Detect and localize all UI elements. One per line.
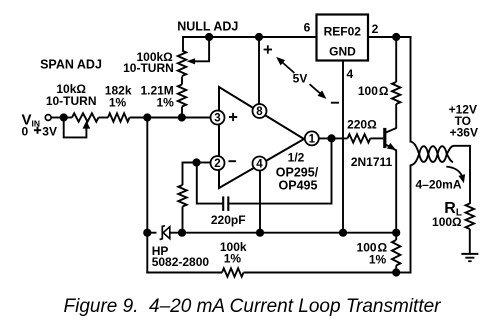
op-amp plus sign (pin3) [229, 116, 237, 118]
pin 4 circle [253, 157, 267, 171]
wire null pot wiper drop [208, 37, 210, 61]
arrowhead null pot wiper [187, 58, 196, 64]
annotation 5V reference arrows [267, 45, 269, 53]
junction null wiper [205, 33, 213, 41]
svg-text:REF02: REF02 [324, 25, 362, 39]
junction output node [327, 134, 335, 142]
annotation 4-20mA current arrow [446, 167, 463, 179]
wire right rail lower (coil to bottom return) [410, 165, 412, 274]
op-amp U1 triangle [219, 87, 304, 188]
svg-text:5V: 5V [293, 71, 308, 85]
svg-text:220pF: 220pF [211, 213, 246, 227]
wire top rail left (NULL ADJ node to REF02 pin 6) [183, 36, 317, 38]
svg-text:220Ω: 220Ω [347, 118, 377, 132]
resistor 100 ohm 1% sense [392, 240, 400, 266]
wire diode row [147, 232, 156, 234]
wire input row segs [64, 117, 72, 119]
pin 1 circle [305, 131, 319, 145]
svg-text:1%: 1% [109, 96, 127, 110]
junction pin4 ground tap [256, 229, 264, 237]
wire sense resistor leads [395, 233, 397, 240]
svg-text:4: 4 [256, 159, 263, 171]
wire emitter down [395, 150, 397, 233]
svg-text:4–20mA: 4–20mA [415, 178, 461, 192]
junction diode cathode node [143, 229, 151, 237]
diode D1 HP 5082-2800 schottky [160, 226, 165, 240]
svg-text:2: 2 [214, 158, 220, 170]
junction input-pot node [60, 113, 68, 121]
svg-text:6: 6 [304, 21, 311, 35]
svg-text:1%: 1% [224, 252, 242, 266]
potentiometer 100k 10-TURN NULL ADJ [178, 51, 186, 76]
junction diode anode node [178, 229, 186, 237]
svg-text:0: 0 [22, 124, 29, 138]
junction 1.21M tap [178, 113, 186, 121]
wire REF02 pin 2 to right rail [368, 36, 412, 38]
svg-text:3V: 3V [42, 124, 57, 138]
pin 3 circle [211, 111, 225, 125]
arrowhead span pot wiper [83, 121, 91, 129]
svg-text:100 Ω: 100 Ω [358, 84, 389, 98]
svg-text:1: 1 [309, 133, 316, 145]
wire bottom row to 100k [146, 272, 222, 274]
wire output to 220 ohm [319, 137, 348, 139]
svg-text:1/2: 1/2 [288, 151, 305, 165]
svg-text:GND: GND [329, 45, 356, 59]
op-amp minus sign (pin2) [229, 160, 237, 162]
svg-text:SPAN ADJ: SPAN ADJ [40, 58, 102, 72]
resistor 182k 1% [108, 113, 130, 121]
wire VIN terminal lead [51, 117, 60, 119]
resistor RL 100 ohm load [466, 204, 474, 230]
wire cap to feedback corner [228, 138, 331, 203]
resistor 1.21M 1% [178, 85, 186, 107]
junction emitter sense node [392, 229, 400, 237]
svg-text:Figure 9. 4–20 mA Current Loo: Figure 9. 4–20 mA Current Loop Transmitt… [64, 296, 442, 317]
resistor 100 ohm upper right [392, 82, 400, 104]
wire R to diode node [182, 207, 184, 233]
potentiometer R1 10k 10-TURN SPAN ADJ [72, 113, 99, 121]
wire bottom return (to 100 ohm sense node) [396, 272, 411, 274]
svg-text:2N1711: 2N1711 [351, 155, 393, 169]
inductor loop wiring (twisted pair) path A [411, 142, 454, 162]
junction pin2 node [192, 158, 200, 166]
transistor Q1 2N1711 base bar [383, 128, 386, 148]
svg-text:2: 2 [372, 22, 379, 36]
transistor emitter lead [386, 144, 397, 150]
svg-text:OP295/: OP295/ [276, 166, 319, 180]
wire REF02 pin 4 (GND) down [342, 61, 344, 233]
svg-text:4: 4 [346, 67, 353, 81]
ground [461, 253, 478, 255]
svg-text:10-TURN: 10-TURN [123, 61, 174, 75]
resistor feedback divider (pin2 leg) [178, 185, 186, 207]
wire 220 ohm to base [370, 137, 383, 139]
junction sense bottom node [392, 268, 400, 276]
svg-text:100Ω: 100Ω [432, 215, 462, 229]
wire pot to 1.21M [181, 77, 183, 85]
wire pin8 feed [258, 37, 260, 104]
transistor collector lead [386, 128, 397, 133]
svg-text:1%: 1% [369, 252, 387, 266]
resistor 220 ohm [348, 134, 371, 142]
svg-text:+36V: +36V [450, 126, 478, 140]
terminal VIN (open circle) [45, 115, 51, 121]
svg-text:5082-2800: 5082-2800 [152, 255, 210, 269]
wire right rail upper (to loop coil) [410, 36, 412, 142]
wire null pot top feed [182, 36, 184, 51]
inductor loop wiring (twisted pair) path B [411, 146, 454, 165]
wire 100 ohm top feed [395, 36, 397, 82]
junction REF02 out [392, 33, 400, 41]
wire span pot wiper loop [64, 118, 87, 138]
wire pin4 to ground rail [259, 170, 261, 232]
arrowhead emitter [387, 143, 396, 150]
wire left vertical (input node down) [146, 118, 148, 274]
junction pin8 supply tap [255, 33, 263, 41]
svg-text:NULL ADJ: NULL ADJ [177, 20, 238, 34]
svg-text:1%: 1% [156, 96, 174, 110]
pin 2 circle [211, 156, 225, 170]
wire 100 ohm to collector [395, 104, 397, 129]
pin 8 circle [253, 104, 267, 118]
capacitor 220pF [222, 196, 224, 211]
wire 100k to sense node [244, 272, 397, 274]
svg-text:OP495: OP495 [279, 179, 318, 193]
voltage reference U2 REF02 box [317, 15, 369, 61]
svg-text:3: 3 [214, 113, 220, 125]
resistor 100k 1% bottom [222, 268, 244, 276]
junction REF02 gnd tap [339, 229, 347, 237]
svg-text:10-TURN: 10-TURN [46, 94, 97, 108]
wire RL to ground [469, 229, 471, 254]
wire pin2 node to cap [197, 163, 223, 204]
wire 1.21M to input node [181, 107, 183, 119]
wire pin2 lead [197, 162, 212, 164]
junction input node A [143, 113, 151, 121]
wire pin2 node to R drop [183, 163, 197, 186]
wire coil to RL corner [453, 146, 470, 204]
svg-text:8: 8 [256, 106, 263, 118]
